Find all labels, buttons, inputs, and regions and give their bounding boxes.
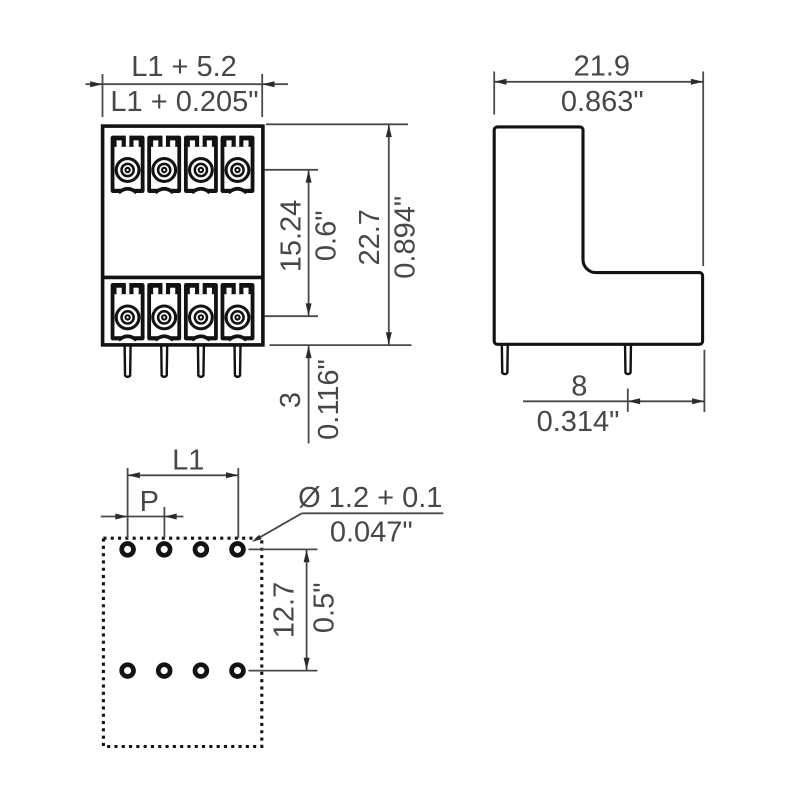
svg-text:0.116": 0.116": [313, 359, 345, 440]
svg-text:0.047": 0.047": [330, 516, 413, 548]
svg-text:L1 + 5.2: L1 + 5.2: [131, 51, 237, 83]
svg-text:21.9: 21.9: [574, 50, 630, 82]
svg-text:0.863": 0.863": [561, 86, 644, 118]
svg-text:22.7: 22.7: [354, 209, 386, 265]
svg-text:0.894": 0.894": [390, 196, 422, 279]
svg-text:P: P: [140, 486, 159, 518]
svg-text:L1: L1: [172, 444, 204, 476]
svg-text:12.7: 12.7: [269, 582, 301, 638]
svg-text:Ø 1.2 + 0.1: Ø 1.2 + 0.1: [298, 482, 442, 514]
svg-text:L1 + 0.205": L1 + 0.205": [110, 86, 258, 118]
svg-text:3: 3: [275, 392, 307, 408]
svg-text:0.5": 0.5": [309, 582, 341, 633]
svg-text:15.24: 15.24: [276, 200, 308, 273]
svg-text:0.314": 0.314": [537, 406, 620, 438]
svg-text:8: 8: [571, 371, 587, 403]
svg-text:0.6": 0.6": [311, 210, 343, 261]
